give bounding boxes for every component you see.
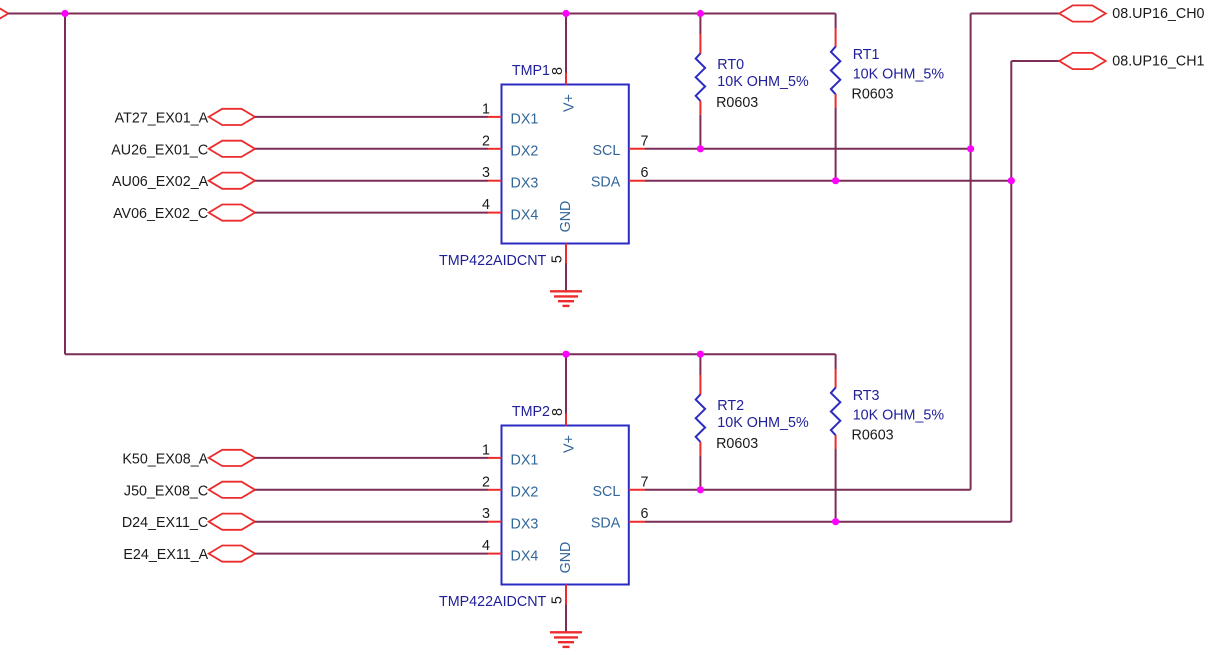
junction RT2 to SCL2 [697, 486, 704, 493]
junction RT1 to SDA1 [832, 177, 839, 184]
svg-text:DX1: DX1 [511, 453, 539, 469]
pin 8 stub of TMP1 (V+) [565, 73, 567, 85]
svg-text:RT1: RT1 [853, 47, 880, 63]
pin 8 stub of TMP2 (V+) [565, 414, 567, 426]
svg-text:TMP422AIDCNT: TMP422AIDCNT [439, 594, 547, 610]
svg-text:RT0: RT0 [717, 57, 744, 73]
pin 5 stub of TMP2 (GND) [565, 585, 567, 605]
wire RT2 top [699, 354, 701, 375]
svg-text:5: 5 [550, 255, 566, 263]
wire net UP16_CH1 vertical [1010, 61, 1012, 522]
svg-text:R0603: R0603 [716, 436, 758, 452]
wire V+ left vertical [64, 14, 66, 355]
wire RT3 top [835, 354, 837, 369]
svg-text:AU06_EX02_A: AU06_EX02_A [112, 174, 209, 190]
pin 2 stub of TMP2 [488, 489, 502, 491]
svg-text:08.UP16_CH1: 08.UP16_CH1 [1112, 54, 1204, 70]
IC TMP2 box [502, 426, 629, 585]
svg-text:RT3: RT3 [853, 388, 880, 404]
svg-text:SCL: SCL [592, 143, 620, 159]
pin number 3 of TMP2 [482, 506, 490, 522]
junction on V+ rail at TMP1 [562, 10, 569, 17]
pin 5 stub of TMP1 (GND) [565, 244, 567, 264]
pin 7 stub of TMP1 (SCL) [629, 148, 645, 150]
svg-text:RT2: RT2 [717, 398, 744, 414]
label TMP2 [512, 404, 550, 420]
svg-text:SCL: SCL [592, 484, 620, 500]
svg-text:GND: GND [558, 201, 574, 233]
svg-text:R0603: R0603 [852, 86, 894, 102]
wire net SDA2 [645, 521, 1011, 523]
port K50_EX08_A [122, 450, 255, 468]
wire AU06_EX02_A to TMP1 pin 3 [255, 180, 488, 182]
svg-text:DX4: DX4 [511, 548, 539, 564]
wire TMP2 GND [565, 605, 567, 633]
pin name SDA of TMP2 [591, 516, 621, 532]
ground symbol below TMP2 [550, 632, 582, 647]
pin name DX1 of TMP2 [511, 453, 539, 469]
resistor RT0 [696, 34, 705, 115]
wire RT1 top [835, 14, 837, 29]
resistor RT1 [831, 28, 840, 108]
pin name DX1 of TMP1 [511, 112, 539, 128]
svg-text:4: 4 [482, 197, 490, 213]
port AU06_EX02_A [112, 173, 255, 191]
pin 3 stub of TMP2 [488, 521, 502, 523]
pin 7 stub of TMP2 (SCL) [629, 489, 645, 491]
pin number 4 of TMP2 [482, 538, 490, 554]
wire RT2 bottom [699, 456, 701, 490]
ground symbol below TMP1 [550, 291, 582, 306]
pin name SDA of TMP1 [591, 175, 621, 191]
label RT1 [852, 47, 945, 102]
resistor RT2 [696, 375, 705, 456]
port AT27_EX01_A [115, 109, 255, 127]
label TMP422AIDCNT of TMP1 [439, 253, 547, 269]
wire D24_EX11_C to TMP2 pin 3 [255, 521, 488, 523]
wire K50_EX08_A to TMP2 pin 1 [255, 457, 488, 459]
svg-text:6: 6 [641, 165, 649, 181]
wire E24_EX11_A to TMP2 pin 4 [255, 553, 488, 555]
svg-text:TMP1: TMP1 [512, 63, 550, 79]
label RT3 [852, 388, 945, 443]
pin number 5 of TMP1 (rotated) [550, 255, 566, 263]
svg-text:8: 8 [550, 408, 566, 416]
pin name DX4 of TMP1 [511, 207, 539, 223]
pin name SCL of TMP1 [592, 143, 620, 159]
wire net UP16_CH0 horizontal [971, 13, 1060, 15]
svg-text:4: 4 [482, 538, 490, 554]
pin 1 stub of TMP2 [488, 457, 502, 459]
pin number 2 of TMP1 [482, 133, 490, 149]
wire RT0 bottom [699, 115, 701, 149]
pin number 5 of TMP2 (rotated) [550, 596, 566, 604]
wire TMP1 GND [565, 264, 567, 292]
svg-text:1: 1 [482, 442, 490, 458]
wire V+ lower rail [65, 353, 836, 355]
wire RT1 bottom [835, 108, 837, 181]
pin 4 stub of TMP2 [488, 553, 502, 555]
wire RT0 top [699, 14, 701, 35]
pin name DX2 of TMP1 [511, 144, 539, 160]
svg-text:E24_EX11_A: E24_EX11_A [123, 547, 208, 563]
svg-text:K50_EX08_A: K50_EX08_A [122, 451, 208, 467]
svg-text:V+: V+ [561, 94, 577, 112]
svg-text:6: 6 [641, 506, 649, 522]
pin number 7 of TMP2 [641, 474, 649, 490]
pin number 6 of TMP1 [641, 165, 649, 181]
svg-text:10K OHM_5%: 10K OHM_5% [717, 415, 809, 431]
pin name DX3 of TMP1 [511, 175, 539, 191]
svg-text:10K OHM_5%: 10K OHM_5% [717, 74, 809, 90]
label RT0 [716, 57, 809, 111]
port J50_EX08_C [124, 482, 255, 500]
svg-text:SDA: SDA [591, 516, 621, 532]
pin 3 stub of TMP1 [488, 180, 502, 182]
svg-text:V+: V+ [561, 435, 577, 453]
svg-text:SDA: SDA [591, 175, 621, 191]
pin 1 stub of TMP1 [488, 116, 502, 118]
svg-text:TMP2: TMP2 [512, 404, 550, 420]
svg-text:D24_EX11_C: D24_EX11_C [122, 515, 208, 531]
port stub at left edge [0, 5, 8, 21]
pin number 2 of TMP2 [482, 474, 490, 490]
wire net UP16_CH0 vertical [970, 14, 972, 490]
svg-text:R0603: R0603 [716, 95, 758, 111]
resistor RT3 [831, 369, 840, 449]
label TMP422AIDCNT of TMP2 [439, 594, 547, 610]
pin number 8 of TMP1 (rotated) [550, 67, 566, 75]
wire V+ rail to TMP2 [565, 354, 567, 413]
pin name V+ of TMP2 [561, 435, 577, 453]
pin name DX4 of TMP2 [511, 548, 539, 564]
wire J50_EX08_C to TMP2 pin 2 [255, 489, 488, 491]
svg-text:5: 5 [550, 596, 566, 604]
svg-text:GND: GND [558, 542, 574, 574]
port 08.UP16_CH1 [1059, 53, 1204, 70]
pin 6 stub of TMP1 (SDA) [629, 180, 645, 182]
svg-text:J50_EX08_C: J50_EX08_C [124, 483, 208, 499]
svg-text:08.UP16_CH0: 08.UP16_CH0 [1112, 6, 1204, 22]
wire RT3 bottom [835, 449, 837, 522]
svg-text:R0603: R0603 [852, 427, 894, 443]
wire AT27_EX01_A to TMP1 pin 1 [255, 116, 488, 118]
pin number 6 of TMP2 [641, 506, 649, 522]
wire V+ top rail [8, 13, 835, 15]
IC TMP1 box [502, 85, 629, 244]
port 08.UP16_CH0 [1059, 5, 1204, 22]
pin name DX3 of TMP2 [511, 516, 539, 532]
junction RT3 to SDA2 [832, 518, 839, 525]
svg-text:2: 2 [482, 474, 490, 490]
svg-text:DX1: DX1 [511, 112, 539, 128]
label RT2 [716, 398, 809, 452]
svg-text:DX4: DX4 [511, 207, 539, 223]
svg-text:3: 3 [482, 506, 490, 522]
wire net SCL1 [645, 148, 971, 150]
pin number 1 of TMP2 [482, 442, 490, 458]
svg-text:3: 3 [482, 165, 490, 181]
pin number 7 of TMP1 [641, 133, 649, 149]
svg-text:7: 7 [641, 133, 649, 149]
svg-text:10K OHM_5%: 10K OHM_5% [853, 66, 945, 82]
pin name SCL of TMP2 [592, 484, 620, 500]
svg-text:AT27_EX01_A: AT27_EX01_A [115, 110, 209, 126]
svg-text:1: 1 [482, 101, 490, 117]
pin name V+ of TMP1 [561, 94, 577, 112]
pin name DX2 of TMP2 [511, 485, 539, 501]
port AV06_EX02_C [113, 205, 255, 223]
wire net SCL2 [645, 489, 971, 491]
pin 4 stub of TMP1 [488, 212, 502, 214]
label TMP1 [512, 63, 550, 79]
pin number 1 of TMP1 [482, 101, 490, 117]
junction SDA1 to CH1 [1008, 177, 1015, 184]
junction SCL1 to CH0 [967, 145, 974, 152]
svg-text:DX2: DX2 [511, 144, 539, 160]
wire AV06_EX02_C to TMP1 pin 4 [255, 212, 488, 214]
wire net SDA1 [645, 180, 1011, 182]
svg-text:AU26_EX01_C: AU26_EX01_C [111, 142, 208, 158]
port E24_EX11_A [123, 546, 255, 564]
pin name GND of TMP1 [558, 201, 574, 233]
pin number 8 of TMP2 (rotated) [550, 408, 566, 416]
pin name GND of TMP2 [558, 542, 574, 574]
svg-text:10K OHM_5%: 10K OHM_5% [853, 407, 945, 423]
port AU26_EX01_C [111, 141, 255, 159]
wire V+ rail to TMP1 [565, 14, 567, 73]
pin 6 stub of TMP2 (SDA) [629, 521, 645, 523]
junction on V+ rail at RT0 [697, 10, 704, 17]
svg-text:7: 7 [641, 474, 649, 490]
wire AU26_EX01_C to TMP1 pin 2 [255, 148, 488, 150]
svg-text:DX3: DX3 [511, 175, 539, 191]
svg-text:DX2: DX2 [511, 485, 539, 501]
svg-text:AV06_EX02_C: AV06_EX02_C [113, 206, 208, 222]
pin number 4 of TMP1 [482, 197, 490, 213]
pin number 3 of TMP1 [482, 165, 490, 181]
svg-text:2: 2 [482, 133, 490, 149]
pin 2 stub of TMP1 [488, 148, 502, 150]
port D24_EX11_C [122, 514, 255, 532]
junction on V+ rail at left vertical [61, 10, 68, 17]
svg-text:TMP422AIDCNT: TMP422AIDCNT [439, 253, 547, 269]
svg-text:DX3: DX3 [511, 516, 539, 532]
wire net UP16_CH1 horizontal [1011, 60, 1059, 62]
junction on lower V+ rail at RT2 [697, 351, 704, 358]
svg-text:8: 8 [550, 67, 566, 75]
junction on lower V+ rail at TMP2 [562, 351, 569, 358]
junction RT0 to SCL1 [697, 145, 704, 152]
